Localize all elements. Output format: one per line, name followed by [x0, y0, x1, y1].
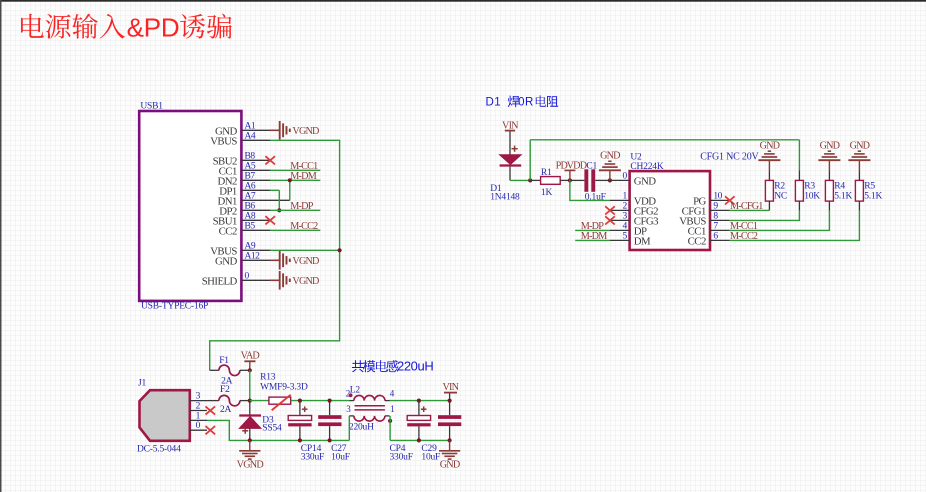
no-connect X on U2 pin 3	[605, 216, 615, 224]
wire VBUS from A4 down to F1	[210, 140, 340, 370]
USB1 pin A8 SBU1	[213, 212, 270, 228]
USB1 pin B6 DP2	[219, 202, 270, 218]
fuse F2 2A	[207, 385, 250, 415]
svg-text:2: 2	[196, 402, 201, 412]
wire R13 to L2	[291, 400, 350, 402]
junction CP4 top	[417, 399, 421, 403]
svg-text:VGND: VGND	[292, 126, 319, 137]
wire M-DP from B6	[270, 209, 320, 211]
svg-text:8: 8	[713, 212, 718, 222]
wire DP from A6 to B6	[270, 190, 281, 212]
U2 pin 9 CFG1	[682, 202, 730, 218]
wire VAD vertical	[249, 370, 251, 400]
svg-text:GND: GND	[215, 255, 237, 267]
wire L2 pin4 to VIN	[390, 400, 450, 402]
svg-text:3: 3	[623, 212, 628, 222]
svg-text:2A: 2A	[220, 405, 232, 415]
wire L2 pin3 down to VGND rail	[348, 416, 350, 441]
U2 pin 10 PG	[693, 192, 730, 208]
U2 pin 0 GND	[610, 172, 656, 188]
power GND above R2	[758, 141, 780, 171]
USB1 pin A9 VBUS	[210, 242, 270, 258]
svg-text:WMF9-3.3D: WMF9-3.3D	[260, 382, 308, 392]
svg-text:220uH: 220uH	[349, 422, 374, 432]
svg-text:B7: B7	[245, 172, 256, 182]
svg-text:R13: R13	[260, 373, 276, 383]
capacitor C27 10uF	[318, 401, 350, 463]
svg-text:M-CFG1: M-CFG1	[730, 201, 763, 212]
junction C27 top	[328, 399, 332, 403]
svg-text:B5: B5	[245, 222, 256, 232]
U2 pin 4 DP	[610, 222, 647, 238]
connector J1 DC-5.5-044 body	[137, 378, 190, 454]
junction C27 bottom	[328, 438, 332, 442]
junction A9 on VBUS wire	[270, 248, 342, 252]
svg-text:GND: GND	[820, 141, 840, 152]
USB1 pin A4 VBUS	[210, 132, 270, 148]
USB1 pin B8 SBU2	[213, 152, 270, 168]
junction F1 VAD	[248, 368, 252, 372]
wire U2 pin 7 to R4	[730, 210, 830, 230]
svg-text:A6: A6	[245, 182, 256, 192]
title 电源输入&PD诱骗	[21, 13, 232, 43]
svg-text:9: 9	[713, 202, 718, 212]
svg-text:4: 4	[623, 222, 628, 232]
svg-text:CH224K: CH224K	[630, 162, 663, 172]
resistor R13 WMF9-3.3D	[260, 373, 308, 411]
power VGND below D3	[237, 440, 264, 470]
window border top/left	[0, 0, 926, 2]
power GND at C1	[599, 151, 621, 183]
svg-text:VIN: VIN	[502, 120, 519, 131]
svg-text:A9: A9	[245, 242, 256, 252]
connector USB1 USB-TYPEC-16P body	[139, 102, 241, 312]
svg-text:1K: 1K	[541, 188, 553, 198]
USB1 pin A1 GND	[215, 122, 270, 138]
wire M-CC2 from B5	[270, 229, 320, 231]
svg-text:CC2: CC2	[688, 236, 706, 248]
svg-text:10: 10	[713, 192, 722, 202]
U2 pin 6 CC2	[688, 232, 730, 248]
svg-text:B8: B8	[245, 152, 256, 162]
wire M-DM from B7 to A7	[270, 178, 320, 200]
no-connect X on USB1 pin A8	[265, 216, 275, 224]
wire GND rail bottom right	[390, 439, 450, 441]
U2 pin 8 VBUS	[679, 212, 729, 228]
svg-text:A12: A12	[245, 252, 261, 262]
wire VBUS riser to top rail	[529, 140, 531, 181]
svg-text:M-DM: M-DM	[290, 171, 316, 182]
svg-text:A1: A1	[245, 122, 256, 132]
svg-text:VDD: VDD	[567, 160, 587, 171]
capacitor C29 10uF	[421, 401, 461, 463]
svg-text:5.1K: 5.1K	[834, 191, 852, 201]
USB1 pin B7 DN2	[217, 172, 270, 188]
svg-text:GND: GND	[440, 460, 460, 471]
svg-text:VGND: VGND	[292, 276, 319, 287]
resistor R1 1K	[530, 168, 570, 198]
wire M-CC1 from A5	[270, 169, 320, 171]
svg-text:1: 1	[196, 411, 201, 421]
capacitor CP14 330uF polarized	[288, 401, 324, 463]
svg-text:DC-5.5-044: DC-5.5-044	[137, 445, 181, 455]
power VGND at USB1 pin A1	[270, 121, 319, 140]
wire L2 pin1 down to GND rail	[388, 416, 392, 441]
no-connect X on USB1 pin B8	[265, 156, 275, 164]
no-connect X on J1 pin 0	[206, 426, 216, 434]
svg-text:R5: R5	[864, 182, 875, 192]
svg-text:330uF: 330uF	[301, 453, 324, 463]
diode D3 SS54	[239, 401, 282, 441]
U2 pin 2 CFG2	[610, 202, 658, 218]
svg-text:M-DP: M-DP	[290, 201, 313, 212]
svg-text:SS54: SS54	[262, 423, 282, 433]
svg-text:2: 2	[346, 389, 350, 399]
svg-text:USB-TYPEC-16P: USB-TYPEC-16P	[141, 302, 208, 312]
fuse F1 2A	[210, 356, 250, 386]
junction CP4 bottom	[417, 438, 421, 442]
capacitor C1 0.1uF	[570, 161, 610, 202]
svg-text:B6: B6	[245, 202, 256, 212]
power GND above R4	[818, 141, 840, 171]
svg-text:1N4148: 1N4148	[490, 193, 520, 203]
junction C29 GND bottom	[448, 438, 452, 442]
svg-text:GND: GND	[634, 176, 656, 188]
svg-text:VGND: VGND	[237, 460, 264, 471]
svg-text:VBUS: VBUS	[210, 135, 237, 147]
svg-text:A7: A7	[245, 192, 256, 202]
blue note common mode inductor 220uH	[352, 358, 433, 373]
svg-text:A8: A8	[245, 212, 256, 222]
no-connect X on U2 pin 10	[725, 196, 735, 204]
svg-text:3: 3	[346, 404, 351, 414]
svg-text:0: 0	[623, 172, 628, 182]
svg-text:0: 0	[196, 421, 201, 431]
junction VIN C29 top	[448, 399, 452, 403]
J1 pin 2	[190, 402, 207, 412]
blue note D1 focal 0R resistor	[486, 96, 559, 109]
wire U2 pin 8 to R3	[730, 210, 800, 220]
svg-text:4: 4	[390, 389, 395, 399]
svg-text:VIN: VIN	[442, 382, 459, 393]
svg-text:A4: A4	[245, 132, 256, 142]
svg-text:J1: J1	[138, 378, 146, 388]
svg-text:R4: R4	[834, 182, 845, 192]
U2 pin 1 VDD	[610, 192, 656, 208]
U2 pin 7 CC1	[688, 222, 730, 238]
svg-text:NC: NC	[774, 191, 787, 201]
svg-text:&PD: &PD	[127, 13, 180, 43]
svg-text:3: 3	[196, 392, 201, 402]
svg-text:1: 1	[390, 404, 394, 414]
svg-text:GND: GND	[760, 141, 780, 152]
U2 pin 3 CFG3	[610, 212, 658, 228]
power flag VIN right	[442, 382, 459, 400]
junction main rail at VAD/D3	[248, 399, 252, 403]
J1 pin 0	[190, 421, 207, 431]
svg-text:R1: R1	[541, 168, 552, 178]
wire J1 pin1 to VGND rail	[207, 420, 349, 440]
wire VDD to U2 pin 1	[570, 180, 610, 200]
svg-text:5.1K: 5.1K	[864, 191, 882, 201]
wire U2 pin 9 to R2	[730, 209, 770, 211]
svg-text:M-DM: M-DM	[581, 231, 607, 242]
diode D1 1N4148	[490, 132, 521, 203]
svg-text:6: 6	[713, 232, 718, 242]
power VGND at USB1 pin A12	[270, 251, 319, 270]
USB1 pin 0 SHIELD	[202, 272, 270, 288]
svg-text:F2: F2	[220, 385, 230, 395]
svg-text:M-CC2: M-CC2	[730, 231, 758, 242]
no-connect X on U2 pin 2	[605, 206, 615, 214]
wire M-DM to U2 pin 5	[575, 239, 610, 241]
wire VBUS top rail to R3	[530, 139, 799, 141]
resistor R2 NC	[765, 170, 787, 210]
wire D1 to R1 junction	[510, 178, 532, 182]
IC U2 CH224K body	[630, 153, 710, 250]
svg-text:1: 1	[623, 192, 628, 202]
power GND below C29	[439, 440, 460, 470]
junction D3 bottom	[248, 438, 252, 442]
common-mode choke L2 220uH	[346, 386, 395, 433]
capacitor CP4 330uF polarized	[390, 401, 431, 463]
svg-text:R3: R3	[804, 182, 815, 192]
wire main rail VAD to R13	[250, 400, 269, 402]
svg-text:5: 5	[623, 232, 628, 242]
svg-text:CFG1 NC 20V: CFG1 NC 20V	[700, 151, 759, 162]
svg-text:220uH: 220uH	[397, 358, 433, 373]
USB1 pin A6 DP1	[219, 182, 270, 198]
svg-text:10uF: 10uF	[421, 453, 440, 463]
svg-text:330uF: 330uF	[390, 453, 413, 463]
U2 pin 5 DM	[610, 232, 651, 248]
USB1 pin A5 CC1	[219, 162, 270, 178]
svg-text:7: 7	[713, 222, 718, 232]
USB1 pin A12 GND	[215, 252, 270, 268]
svg-text:2: 2	[623, 202, 628, 212]
svg-text:10K: 10K	[804, 191, 820, 201]
USB1 pin B5 CC2	[219, 222, 270, 238]
junction CP14 bottom	[298, 438, 302, 442]
svg-text:GND: GND	[850, 141, 870, 152]
power flag PD	[556, 160, 576, 182]
junction CP14 top	[298, 399, 302, 403]
svg-text:M-CC2: M-CC2	[290, 221, 318, 232]
svg-text:USB1: USB1	[140, 102, 163, 112]
power flag VAD	[241, 351, 260, 371]
svg-text:R2: R2	[774, 182, 785, 192]
power GND above R5	[848, 141, 870, 171]
svg-text:VAD: VAD	[241, 351, 260, 362]
svg-text:SHIELD: SHIELD	[202, 275, 238, 287]
no-connect X on J1 pin 2	[206, 406, 216, 414]
svg-text:10uF: 10uF	[331, 453, 350, 463]
wire M-DP to U2 pin 4	[575, 229, 610, 231]
svg-text:DM: DM	[634, 236, 651, 248]
USB1 pin A7 DN1	[217, 192, 289, 208]
resistor R5 5.1K	[855, 170, 882, 210]
svg-text:CC2: CC2	[219, 225, 237, 237]
wire R3 top to VBUS rail	[798, 140, 800, 171]
svg-text:GND: GND	[600, 151, 620, 162]
wire U2 pin 6 to R5	[730, 210, 860, 240]
svg-text:A5: A5	[245, 162, 256, 172]
J1 pin 1	[190, 411, 207, 421]
power VGND at USB1 pin SHIELD	[270, 271, 319, 290]
svg-text:F1: F1	[219, 356, 229, 366]
svg-text:D1: D1	[486, 97, 502, 109]
resistor R4 5.1K	[825, 170, 852, 210]
svg-text:VGND: VGND	[292, 256, 319, 267]
svg-text:0R: 0R	[518, 97, 534, 109]
power VIN flag top	[502, 120, 519, 131]
resistor R3 10K	[795, 170, 820, 210]
J1 pin 3	[190, 392, 207, 402]
